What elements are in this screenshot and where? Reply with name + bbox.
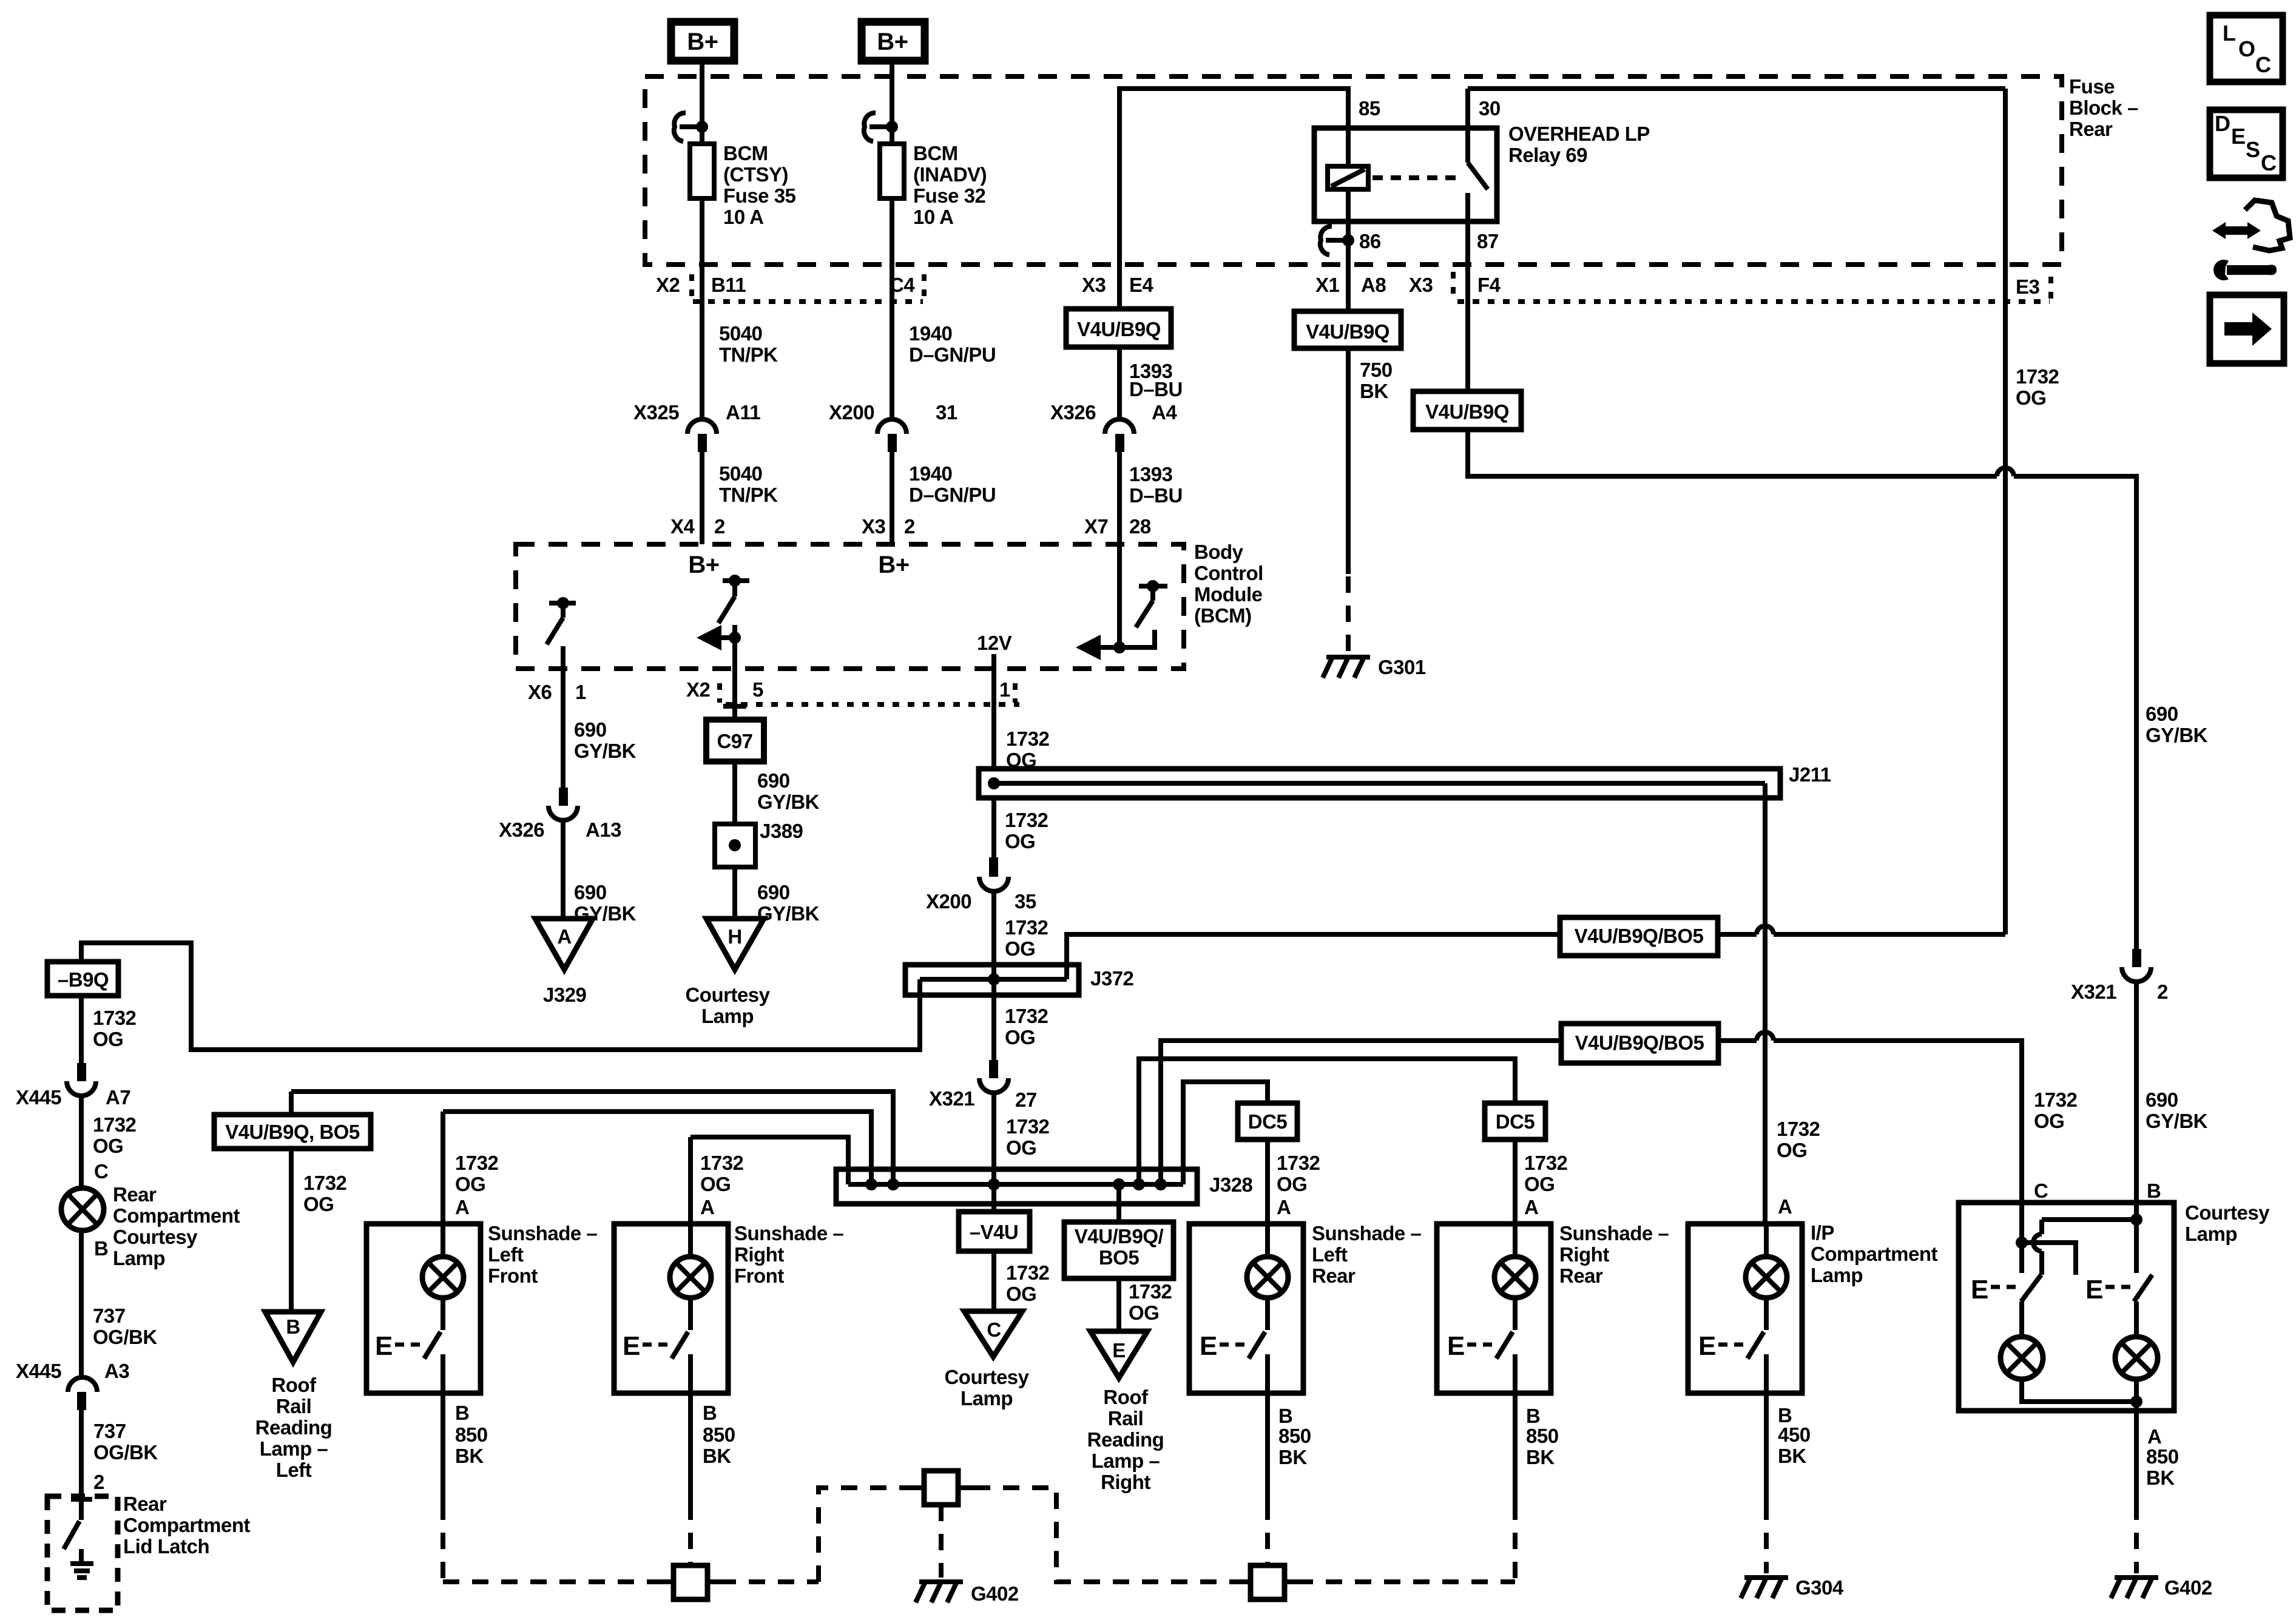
svg-text:A3: A3: [104, 1360, 129, 1382]
wire E4 below band: [1117, 265, 1122, 309]
svg-text:X3: X3: [1082, 274, 1106, 296]
svg-text:OG: OG: [1006, 1283, 1036, 1305]
svg-text:E: E: [1447, 1331, 1465, 1361]
svg-text:Fuse: Fuse: [2069, 75, 2115, 98]
svg-text:Courtesy: Courtesy: [944, 1366, 1029, 1388]
wire tag to B triangle: [289, 1149, 294, 1312]
svg-text:1732: 1732: [93, 1113, 137, 1136]
svg-text:TN/PK: TN/PK: [719, 343, 778, 366]
svg-text:E: E: [1112, 1339, 1126, 1362]
lamp rear compartment courtesy: [61, 1188, 104, 1230]
wire B+2 to fuse: [890, 61, 894, 144]
net tag V4U/B9Q on F4 wire: [1413, 391, 1521, 430]
svg-text:I/P: I/P: [1811, 1221, 1834, 1244]
wire A3 to latch: [79, 1410, 84, 1499]
svg-text:E: E: [623, 1331, 640, 1361]
bus hook fuse32: [864, 113, 898, 141]
svg-text:D–GN/PU: D–GN/PU: [909, 484, 996, 506]
svg-text:J211: J211: [1789, 763, 1831, 786]
svg-text:G402: G402: [971, 1582, 1019, 1605]
dashed bus square RF to riser: [720, 1579, 819, 1584]
connector X200 31: [829, 401, 957, 452]
wire label 1393 D-BU lower: [1129, 463, 1183, 507]
ground G402 right: [2111, 1578, 2158, 1598]
svg-text:Reading: Reading: [255, 1416, 333, 1439]
wire dashed to G301: [1346, 576, 1351, 654]
wire switch2 to lamp2: [2134, 1301, 2139, 1337]
net tag V4U/B9Q/BO5 second: [1561, 1024, 1718, 1063]
svg-text:OG: OG: [700, 1173, 731, 1195]
svg-text:B: B: [2147, 1180, 2161, 1202]
wire label 1732 OG rear b: [93, 1113, 137, 1157]
wire 12V pin1: [991, 654, 996, 769]
svg-text:C: C: [2034, 1180, 2048, 1202]
wire spine below J211: [991, 798, 996, 857]
BCM switch courtesy: [718, 575, 749, 623]
svg-text:X6: X6: [528, 681, 552, 703]
svg-text:1732: 1732: [1006, 1115, 1050, 1138]
svg-text:28: 28: [1129, 515, 1151, 538]
dashed lead G402 square down: [939, 1505, 944, 1578]
svg-text:Sunshade –: Sunshade –: [734, 1222, 843, 1244]
svg-text:BK: BK: [1278, 1446, 1307, 1468]
wire C stub right: [2022, 1243, 2076, 1275]
component label sunshade right front: [734, 1222, 843, 1287]
svg-text:E: E: [1200, 1331, 1217, 1361]
BCM dashed box: [516, 544, 1184, 669]
svg-text:BK: BK: [1778, 1445, 1806, 1467]
bus hook 86: [1320, 226, 1354, 255]
wire label 737 OG/BK a: [93, 1305, 157, 1348]
svg-text:A: A: [1277, 1196, 1291, 1218]
svg-text:87: 87: [1477, 230, 1499, 252]
sunshade right front box: [614, 1224, 728, 1393]
wire tag2 to lamp C: [1718, 1032, 2022, 1203]
svg-text:B: B: [455, 1402, 469, 1424]
svg-text:Body: Body: [1194, 541, 1244, 563]
svg-text:Roof: Roof: [1103, 1386, 1149, 1408]
wire J211 leg to IP lamp: [1763, 783, 1768, 1224]
wire E4 riser to relay 85: [1119, 89, 1348, 265]
wire relay 87 down: [1465, 221, 1470, 391]
ground G301: [1323, 657, 1370, 678]
fuse F35: [690, 144, 714, 198]
svg-text:C: C: [987, 1318, 1001, 1341]
svg-text:BCM: BCM: [913, 142, 958, 164]
BCM switch X6: [547, 597, 576, 644]
switch sunshade LR: [1200, 1298, 1268, 1393]
svg-text:–V4U: –V4U: [970, 1221, 1019, 1243]
svg-text:Front: Front: [734, 1264, 784, 1287]
svg-text:BK: BK: [1526, 1446, 1555, 1468]
wire label 1732 OG lamp C: [2034, 1089, 2078, 1132]
wire branch DC5 right: [1139, 1059, 1515, 1184]
svg-text:E: E: [375, 1331, 393, 1361]
svg-text:X2: X2: [686, 678, 711, 701]
relay coil: [1328, 128, 1368, 221]
net tag V4U/B9Q, BO5 roof rail left: [214, 1092, 371, 1149]
wire DC5 right to sunshade RR: [1513, 1139, 1518, 1224]
svg-text:Rear: Rear: [1312, 1264, 1356, 1287]
svg-text:OG: OG: [1006, 749, 1036, 771]
wire label 1732 OG roof right: [1129, 1280, 1172, 1324]
bus hook fuse35: [674, 113, 708, 141]
svg-text:G304: G304: [1795, 1576, 1844, 1599]
svg-text:2: 2: [714, 515, 725, 538]
svg-text:Lamp: Lamp: [961, 1387, 1013, 1409]
svg-text:(CTSY): (CTSY): [723, 163, 788, 186]
lamp sunshade LF: [422, 1224, 464, 1298]
net tag V4U/B9Q on E4 wire: [1066, 309, 1171, 347]
svg-text:Right: Right: [734, 1243, 784, 1266]
svg-text:Lid Latch: Lid Latch: [123, 1535, 209, 1558]
component label sunshade right rear: [1559, 1222, 1669, 1287]
band tick C4: [922, 274, 927, 299]
wire J372 right leg to tag: [1067, 934, 1560, 979]
svg-text:B: B: [286, 1315, 300, 1338]
svg-text:E3: E3: [2016, 275, 2040, 298]
wire C97 to J389: [732, 761, 737, 824]
svg-text:A: A: [700, 1196, 714, 1218]
svg-text:C: C: [94, 1160, 108, 1183]
svg-text:Rear: Rear: [113, 1183, 157, 1206]
svg-text:1940: 1940: [909, 462, 952, 485]
pin label X7 28: [1084, 515, 1151, 538]
svg-text:Lamp: Lamp: [2185, 1223, 2237, 1245]
svg-text:86: 86: [1359, 230, 1381, 252]
wire label 690 GY/BK X6: [574, 718, 636, 762]
svg-text:B+: B+: [877, 29, 908, 55]
svg-text:31: 31: [936, 401, 957, 424]
svg-text:S: S: [2246, 137, 2260, 162]
svg-text:OG: OG: [1129, 1301, 1159, 1324]
svg-text:Reading: Reading: [1087, 1428, 1164, 1451]
inline connector C97: [706, 720, 764, 761]
svg-text:Sunshade –: Sunshade –: [488, 1222, 597, 1244]
svg-text:B: B: [703, 1402, 717, 1424]
svg-text:1732: 1732: [1006, 727, 1050, 750]
lamp sunshade RR: [1494, 1224, 1536, 1298]
svg-text:85: 85: [1359, 97, 1380, 120]
svg-text:OG: OG: [1524, 1173, 1555, 1195]
svg-text:690: 690: [757, 769, 790, 792]
ground bus connector square RF: [661, 1565, 720, 1599]
wire X321-27 to J328: [991, 1093, 996, 1169]
svg-text:D–BU: D–BU: [1129, 484, 1183, 507]
svg-text:27: 27: [1015, 1089, 1037, 1111]
wire label 1732 OG E3: [2016, 365, 2059, 409]
svg-text:737: 737: [93, 1305, 126, 1327]
wire branch sunshade front feed: [291, 1092, 893, 1184]
svg-text:Sunshade –: Sunshade –: [1559, 1222, 1669, 1244]
hop over E3 riser: [1997, 468, 2014, 476]
wire label 1732 OG c: [1005, 916, 1048, 960]
svg-text:1732: 1732: [1005, 809, 1048, 831]
svg-text:BK: BK: [1360, 380, 1388, 402]
svg-text:GY/BK: GY/BK: [757, 791, 820, 813]
wire sunshade RR ground lead: [1513, 1393, 1518, 1504]
fuse block - rear dashed outline: [645, 76, 2062, 265]
wire lamp1 to junction: [2022, 1379, 2136, 1402]
connector X445 A7: [16, 1063, 130, 1109]
connector X200 35: [926, 857, 1036, 913]
dashed ground lead courtesy lamp: [2134, 1504, 2139, 1573]
svg-text:Rear: Rear: [123, 1493, 167, 1515]
switch courtesy 1: [1971, 1275, 2041, 1305]
connector X325 A11: [633, 401, 760, 452]
wire E3 riser 1732 OG: [2003, 89, 2008, 934]
wire 1393 inside BCM: [1117, 544, 1122, 647]
svg-text:E: E: [1698, 1331, 1716, 1361]
wire label 690 GY/BK above H: [757, 881, 820, 925]
latch pin tick: [71, 1497, 92, 1502]
svg-text:690: 690: [574, 881, 607, 903]
wire label 1732 OG IP lamp: [1777, 1118, 1820, 1218]
svg-text:GY/BK: GY/BK: [574, 740, 636, 762]
relay coil-switch link: [1373, 175, 1456, 180]
svg-text:X1: X1: [1315, 274, 1340, 296]
relay K69 label: [1508, 123, 1650, 166]
fuse F32 label: [913, 142, 987, 228]
svg-text:Lamp: Lamp: [701, 1005, 754, 1027]
svg-text:B+: B+: [878, 552, 909, 578]
svg-text:5040: 5040: [719, 322, 762, 345]
svg-text:J328: J328: [1209, 1173, 1253, 1196]
svg-text:Relay 69: Relay 69: [1508, 144, 1587, 166]
svg-text:1732: 1732: [93, 1007, 137, 1029]
ground G402 left: [916, 1582, 963, 1602]
svg-text:690: 690: [757, 881, 790, 903]
icon wrench-arrow: [2212, 200, 2290, 280]
wire sunshade LF ground lead: [441, 1393, 445, 1504]
svg-text:OG: OG: [93, 1135, 123, 1157]
svg-text:1732: 1732: [303, 1172, 347, 1194]
svg-text:A7: A7: [106, 1086, 130, 1109]
svg-text:V4U/B9Q: V4U/B9Q: [1306, 320, 1389, 343]
connector X321 27: [929, 1060, 1037, 1111]
net tag -B9Q: [47, 962, 118, 996]
wire IP lamp ground lead: [1764, 1393, 1769, 1504]
BCM arrow courtesy: [697, 625, 741, 650]
svg-text:Compartment: Compartment: [113, 1204, 240, 1227]
svg-text:A: A: [1524, 1196, 1538, 1218]
svg-text:E: E: [1971, 1275, 1988, 1305]
svg-text:V4U/B9Q/BO5: V4U/B9Q/BO5: [1575, 1031, 1704, 1054]
splice bar J372: [905, 965, 1134, 995]
svg-text:A11: A11: [726, 401, 760, 424]
wire label 450 BK: [1778, 1423, 1811, 1467]
svg-text:(INADV): (INADV): [913, 163, 987, 186]
svg-text:850: 850: [2146, 1445, 2179, 1468]
band tick E3: [2048, 277, 2053, 300]
wire label 690 GY/BK below C97: [757, 769, 820, 813]
svg-text:1732: 1732: [1129, 1280, 1172, 1303]
svg-text:A8: A8: [1361, 274, 1386, 296]
svg-text:Left: Left: [276, 1459, 312, 1481]
B+ terminal 2: [862, 22, 925, 61]
svg-text:Rear: Rear: [2069, 118, 2113, 140]
svg-text:Left: Left: [488, 1243, 524, 1266]
wire X2-5 to C97: [732, 669, 737, 720]
icon arrow box: [2210, 295, 2284, 363]
wire DC5 left to sunshade LR: [1265, 1139, 1270, 1224]
wire label 1732 OG A sunshade LR: [1277, 1152, 1320, 1218]
sunshade left front box: [366, 1224, 481, 1393]
svg-text:V4U/B9Q/BO5: V4U/B9Q/BO5: [1575, 925, 1704, 947]
wire branch lamp C feed: [1161, 1041, 1561, 1184]
wire switch1 to lamp1: [2019, 1301, 2024, 1337]
svg-text:1732: 1732: [2034, 1089, 2078, 1111]
svg-text:5040: 5040: [719, 462, 762, 485]
svg-text:G402: G402: [2164, 1576, 2212, 1599]
svg-text:X326: X326: [499, 819, 544, 841]
svg-text:Fuse 32: Fuse 32: [913, 184, 986, 207]
svg-text:BCM: BCM: [723, 142, 768, 164]
component label lid latch: [123, 1493, 251, 1558]
svg-text:A13: A13: [586, 819, 621, 841]
svg-text:690: 690: [2146, 703, 2178, 725]
pin label X4 2: [670, 515, 725, 538]
svg-text:10 A: 10 A: [723, 206, 763, 228]
wire to 690 drop: [2014, 476, 2136, 949]
dashed bus riser to G402 square: [819, 1488, 908, 1582]
svg-text:1732: 1732: [1277, 1152, 1320, 1174]
svg-text:BO5: BO5: [1099, 1246, 1140, 1269]
svg-text:690: 690: [2146, 1089, 2178, 1111]
svg-text:35: 35: [1015, 890, 1036, 913]
svg-text:OG: OG: [1005, 830, 1035, 852]
svg-text:10 A: 10 A: [913, 206, 953, 228]
wire label 850 BK sunshade LR: [1278, 1425, 1311, 1468]
wire label 690 GY/BK right: [2146, 703, 2208, 746]
ground bus connector square G402: [908, 1471, 974, 1505]
wire B to left branch: [2033, 1220, 2136, 1275]
svg-text:X3: X3: [862, 515, 886, 538]
BCM label: [1194, 541, 1263, 627]
wire B inside: [2130, 1203, 2142, 1273]
pin label X3 2: [862, 515, 915, 538]
svg-text:X325: X325: [633, 401, 679, 424]
svg-text:850: 850: [1278, 1425, 1311, 1447]
wire X325 to BCM: [700, 452, 704, 544]
component label sunshade left front: [488, 1222, 597, 1287]
wire X200 to BCM: [890, 452, 894, 544]
svg-text:Courtesy: Courtesy: [113, 1226, 198, 1248]
off-page triangle C: [964, 1311, 1022, 1357]
dashed ground lead sunshade RF: [688, 1504, 693, 1565]
svg-text:TN/PK: TN/PK: [719, 484, 778, 506]
svg-text:OG: OG: [1005, 1026, 1035, 1048]
connector X321 2: [2071, 949, 2168, 1003]
svg-text:1732: 1732: [2016, 365, 2059, 388]
svg-text:Lamp: Lamp: [113, 1247, 165, 1269]
svg-text:1393: 1393: [1129, 463, 1173, 485]
wire B+1 to fuse: [700, 61, 704, 144]
svg-text:OG: OG: [1005, 937, 1035, 960]
svg-text:–B9Q: –B9Q: [58, 968, 109, 991]
svg-text:Courtesy: Courtesy: [685, 984, 770, 1006]
svg-text:GY/BK: GY/BK: [757, 902, 820, 925]
BCM courtesy output wire: [732, 625, 737, 669]
dashed bus G402 square right: [974, 1488, 1251, 1582]
relay switch: [1468, 89, 1488, 221]
wire label 690 GY/BK above A: [574, 881, 636, 925]
svg-text:A4: A4: [1152, 401, 1177, 424]
svg-text:X200: X200: [926, 890, 971, 913]
destination label courtesy lamp C: [944, 1366, 1029, 1409]
sunshade right rear box: [1437, 1224, 1551, 1393]
pin tick above C97: [723, 704, 746, 709]
svg-text:X200: X200: [829, 401, 874, 424]
svg-text:5: 5: [752, 678, 763, 701]
wire -V4U to C: [991, 1251, 996, 1311]
svg-text:OG: OG: [1006, 1136, 1036, 1159]
wire -B9Q to X445: [79, 996, 84, 1063]
sunshade left rear box: [1189, 1224, 1303, 1393]
svg-text:1732: 1732: [1006, 1261, 1050, 1284]
wire label 1732 OG b: [1005, 809, 1048, 852]
wire label 737 OG/BK b: [93, 1420, 158, 1463]
off-page triangle E: [1090, 1331, 1147, 1378]
wire label 1732 OG d: [1005, 1005, 1048, 1048]
BCM pin band dotted: [720, 683, 1019, 704]
svg-text:1940: 1940: [909, 322, 952, 345]
wire label 5040 TN/PK upper: [719, 322, 778, 366]
icon LOC box: [2210, 15, 2283, 82]
wire label 850 BK sunshade RF: [703, 1423, 735, 1467]
svg-text:850: 850: [703, 1423, 735, 1446]
svg-text:DC5: DC5: [1248, 1110, 1288, 1133]
splice J389: [715, 820, 803, 867]
svg-text:F4: F4: [1477, 274, 1501, 296]
BCM input arrow 1393: [1076, 630, 1155, 660]
svg-text:D: D: [2215, 111, 2230, 136]
wire label 850 BK sunshade LF: [455, 1423, 488, 1467]
B+ terminal 1: [671, 22, 734, 61]
wire label 850 BK courtesy: [2146, 1445, 2179, 1489]
svg-text:OG/BK: OG/BK: [93, 1326, 157, 1348]
wire label 1732 OG A sunshade LF: [455, 1152, 499, 1218]
svg-text:12V: 12V: [977, 632, 1012, 654]
svg-text:A: A: [1778, 1195, 1792, 1218]
lamp sunshade LR: [1247, 1224, 1288, 1298]
switch courtesy 2: [2085, 1275, 2152, 1305]
svg-text:OG: OG: [1777, 1139, 1807, 1161]
svg-text:D–GN/PU: D–GN/PU: [909, 343, 996, 366]
svg-text:Roof: Roof: [271, 1374, 317, 1396]
fuse block label: [2069, 75, 2138, 140]
wire sunshade LR ground lead: [1265, 1393, 1270, 1504]
svg-text:30: 30: [1479, 97, 1501, 120]
wire X445 to lamp: [79, 1096, 84, 1188]
svg-text:Right: Right: [1559, 1243, 1609, 1266]
svg-text:E: E: [2231, 124, 2246, 149]
svg-text:B: B: [94, 1237, 108, 1260]
inline connector DC5 left: [1238, 1103, 1297, 1139]
relay K69 box: [1314, 128, 1497, 221]
wire label 750 BK: [1360, 359, 1393, 402]
svg-text:A: A: [557, 925, 571, 948]
svg-text:X326: X326: [1050, 401, 1096, 424]
connector X326 A4: [1050, 401, 1177, 452]
dashed bus square LR to RR: [1297, 1579, 1515, 1584]
svg-text:B+: B+: [687, 29, 718, 55]
wire X321-2 to lamp B: [2134, 983, 2139, 1203]
svg-text:Rail: Rail: [276, 1395, 312, 1417]
svg-text:H: H: [728, 925, 741, 948]
svg-text:Block –: Block –: [2069, 96, 2138, 119]
svg-text:GY/BK: GY/BK: [2146, 1110, 2208, 1132]
